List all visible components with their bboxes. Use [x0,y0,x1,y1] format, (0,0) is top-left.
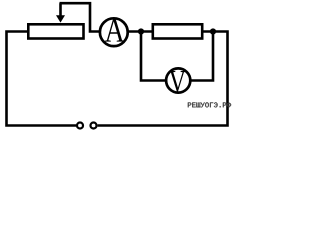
watermark РЕШУОГЭ.РФ [188,102,231,107]
voltmeter U2 circle [166,68,190,92]
terminal left open circle [77,123,83,129]
wire ammeter to resistor [127,30,152,33]
wire voltmeter branch left [141,32,166,81]
node B junction dot [210,28,216,34]
resistor R2 body [153,24,202,38]
node A junction dot [138,28,144,34]
wire right loop [98,32,228,126]
wire slider to ammeter [60,3,101,31]
voltmeter label V [169,71,186,92]
ammeter U1 circle [100,18,128,46]
wire voltmeter branch right [192,32,214,81]
terminal right open circle [91,123,97,129]
rheostat slider stem [59,3,62,17]
wire left loop [7,32,77,126]
rheostat R1 body [28,24,83,38]
rheostat arrowhead [56,15,65,22]
ammeter label A [105,19,125,42]
